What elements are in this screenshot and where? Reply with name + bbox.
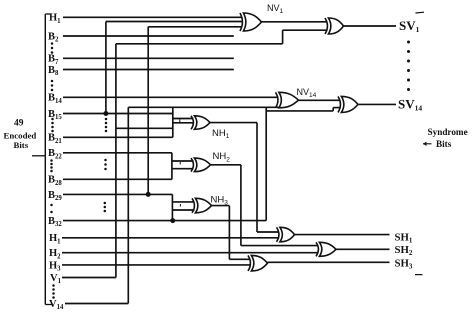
svg-text:Bits: Bits xyxy=(14,140,29,150)
svg-text:Syndrome: Syndrome xyxy=(428,127,468,137)
svg-text:49: 49 xyxy=(14,118,24,128)
svg-text:Bits: Bits xyxy=(436,139,452,149)
